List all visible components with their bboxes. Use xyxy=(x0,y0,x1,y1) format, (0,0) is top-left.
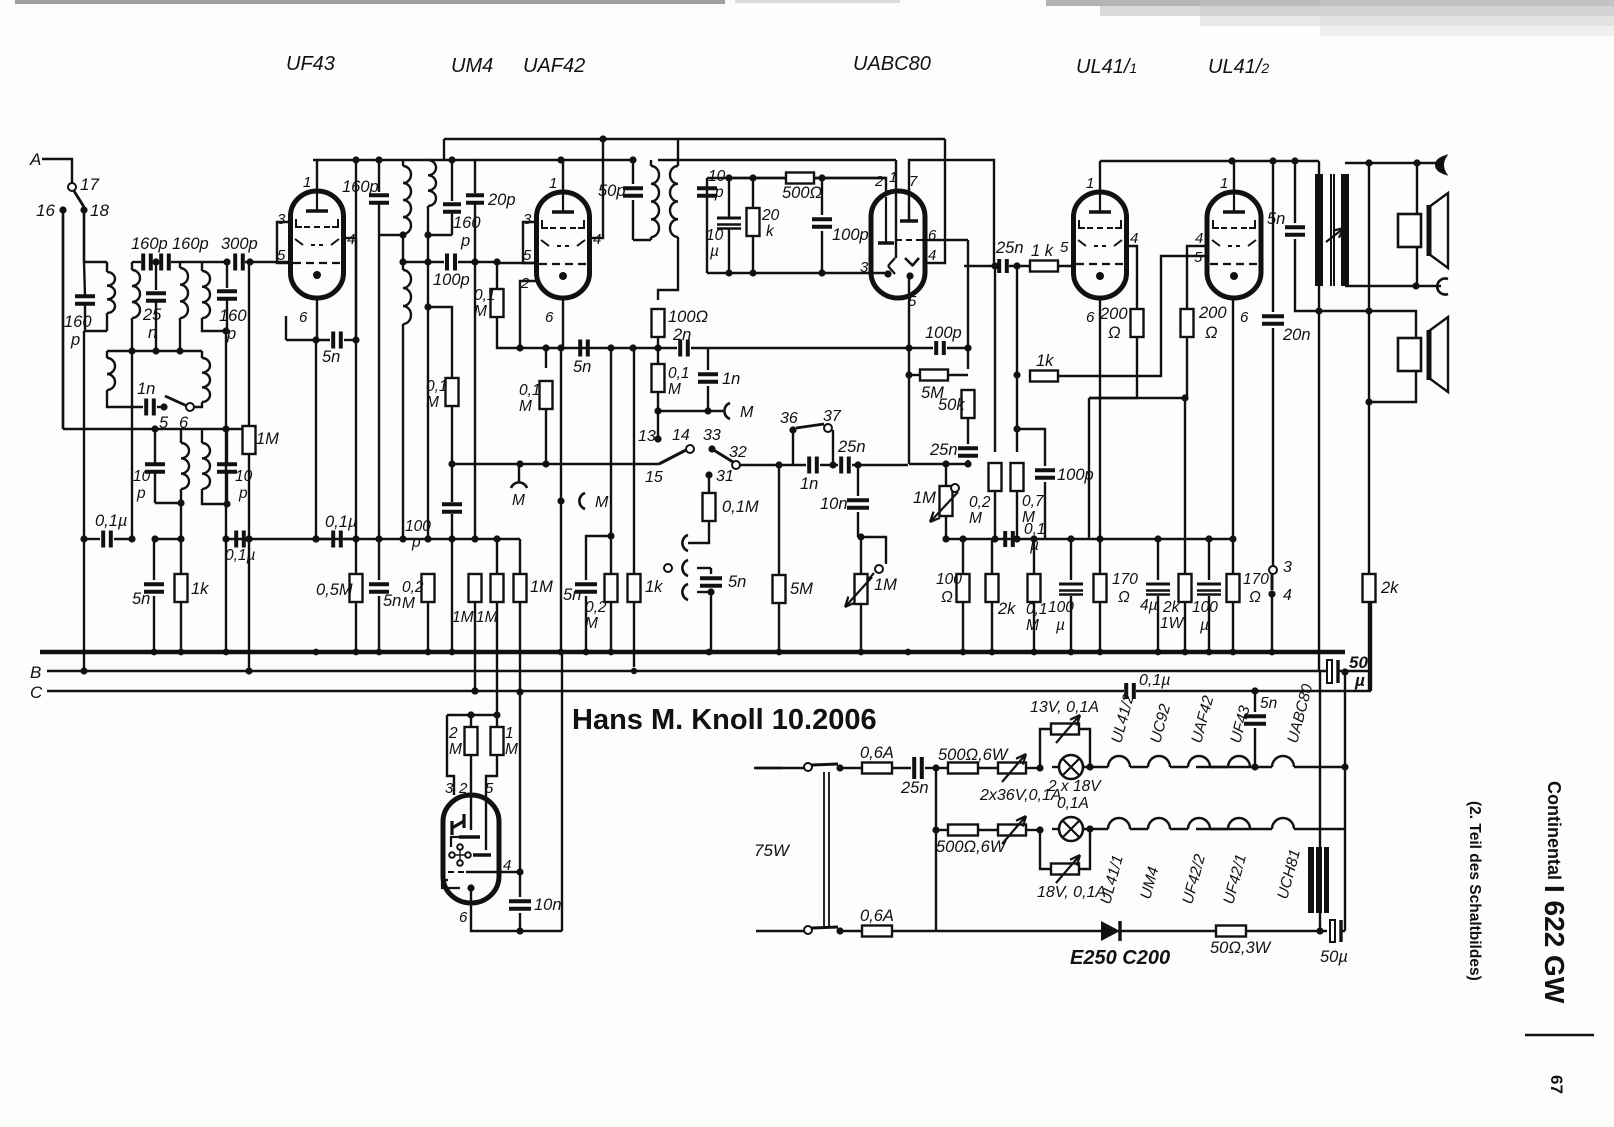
wire tank column xyxy=(131,351,133,538)
svg-text:6: 6 xyxy=(545,309,554,326)
potentiometer 1M tone xyxy=(861,537,886,564)
mains terminal bottom xyxy=(756,930,804,932)
scan noise top right corner xyxy=(1046,0,1614,6)
svg-text:µ: µ xyxy=(710,243,719,260)
svg-text:1: 1 xyxy=(1086,175,1094,192)
resistor 0,1M UAF42 xyxy=(545,348,547,368)
wire pin7 plate xyxy=(909,160,994,266)
wire speaker2 bottom xyxy=(1369,371,1416,402)
svg-text:0,1A: 0,1A xyxy=(1057,795,1089,812)
svg-text:0,7: 0,7 xyxy=(1022,493,1045,510)
ground bus thick xyxy=(40,650,1345,655)
wire feedback xyxy=(1368,163,1370,311)
svg-text:1: 1 xyxy=(549,175,557,192)
resistor 2M xyxy=(470,715,472,727)
switch 36-37 loop xyxy=(792,430,794,465)
svg-text:1M: 1M xyxy=(452,609,474,626)
resistor 170 ohm 2 xyxy=(1232,539,1234,574)
inductor coil 10p right xyxy=(201,429,203,443)
svg-text:0,2: 0,2 xyxy=(402,579,424,596)
svg-text:C: C xyxy=(30,683,43,702)
inductor osc coil secondary xyxy=(402,262,404,270)
capacitor 100p det xyxy=(821,178,823,215)
svg-text:4: 4 xyxy=(347,231,355,248)
svg-text:5: 5 xyxy=(1194,249,1203,266)
svg-text:0,1M: 0,1M xyxy=(722,498,759,516)
wire node16 down xyxy=(62,210,64,429)
svg-text:3: 3 xyxy=(445,780,454,797)
svg-text:M: M xyxy=(740,404,754,421)
svg-text:4: 4 xyxy=(593,231,601,248)
resistor 1M osc xyxy=(248,262,250,426)
contact 6 xyxy=(186,403,194,411)
svg-text:160: 160 xyxy=(453,214,481,232)
fuse 0,6A bottom xyxy=(840,930,863,932)
svg-text:500Ω: 500Ω xyxy=(782,184,822,202)
svg-text:0,1: 0,1 xyxy=(426,378,448,395)
capacitor 160p feedback xyxy=(451,160,453,201)
node 16 xyxy=(59,206,66,213)
svg-text:100p: 100p xyxy=(925,324,962,342)
wire pin5 cathode xyxy=(908,276,910,464)
transformer core xyxy=(1330,174,1332,286)
svg-text:17: 17 xyxy=(80,175,99,194)
svg-text:100p: 100p xyxy=(832,226,869,244)
svg-text:31: 31 xyxy=(716,468,734,485)
capacitor 0,1u 2 xyxy=(312,535,319,542)
hook M right of 0,1M xyxy=(658,410,723,412)
resistor 2k fb xyxy=(1363,574,1376,602)
wire node18 down xyxy=(83,210,85,262)
svg-text:1k: 1k xyxy=(645,578,663,596)
capacitor 25n AF xyxy=(820,464,838,466)
svg-text:0,1: 0,1 xyxy=(474,287,496,304)
svg-text:µ: µ xyxy=(1200,617,1209,634)
filter choke xyxy=(1319,672,1321,931)
hook phono 2 xyxy=(682,584,688,600)
svg-text:Ω: Ω xyxy=(1205,324,1218,342)
svg-text:UABC80: UABC80 xyxy=(853,53,931,75)
svg-text:0,1: 0,1 xyxy=(1024,521,1046,538)
wire top line y139 xyxy=(444,138,945,140)
svg-text:M: M xyxy=(969,510,982,527)
resistor 0,1M osc grid xyxy=(446,378,459,406)
tube UC92 V6 xyxy=(443,795,499,903)
hook phono 1 xyxy=(682,535,688,551)
switch 3-4 tone xyxy=(1269,566,1277,574)
wire xyxy=(1186,337,1188,398)
wire osc grid chain xyxy=(427,235,429,307)
inductor bandswitch coil right xyxy=(201,351,203,358)
capacitor 300p xyxy=(233,254,237,271)
svg-text:5n: 5n xyxy=(132,590,150,608)
svg-text:160p: 160p xyxy=(131,235,168,253)
svg-text:p: p xyxy=(411,534,421,551)
tube UAF42 internals xyxy=(562,194,564,212)
inductor IF2 secondary xyxy=(677,139,679,166)
wire 31 branch xyxy=(705,471,712,478)
svg-text:1M: 1M xyxy=(256,430,279,448)
capacitor 100p osc grid xyxy=(442,502,462,506)
svg-text:Continental: Continental xyxy=(1544,781,1564,880)
svg-text:I 622 GW: I 622 GW xyxy=(1539,885,1570,1004)
svg-text:5: 5 xyxy=(1060,239,1069,256)
wire screen join xyxy=(1089,397,1185,399)
capacitor 0,1u second xyxy=(234,531,238,548)
svg-text:0,6A: 0,6A xyxy=(860,744,894,762)
capacitor 0,1u decouple xyxy=(1003,531,1007,547)
svg-text:13V, 0,1A: 13V, 0,1A xyxy=(1030,699,1099,716)
svg-text:k: k xyxy=(766,223,775,240)
wire y692 to UC92 xyxy=(519,692,521,872)
wire dropper column xyxy=(935,768,937,931)
capacitor 0,1u C line xyxy=(1124,683,1128,699)
resistor 0,1M IF xyxy=(657,348,659,364)
switch blade 5-6 xyxy=(165,396,187,406)
svg-text:1M: 1M xyxy=(874,576,897,594)
wire pin2 detector line xyxy=(707,178,886,192)
wire UL41/1 screen xyxy=(1126,246,1137,309)
node 18 xyxy=(80,206,87,213)
svg-text:B: B xyxy=(30,663,41,682)
svg-text:100: 100 xyxy=(936,571,962,588)
scan noise top edge xyxy=(15,0,725,4)
contact 5 xyxy=(160,403,167,410)
svg-text:18: 18 xyxy=(90,201,109,220)
wire AF y464 continuation xyxy=(546,463,659,465)
resistor 2k 1W xyxy=(1184,539,1186,574)
svg-text:5n: 5n xyxy=(728,573,746,591)
resistor 50 ohm 3W xyxy=(1216,926,1246,937)
svg-text:16: 16 xyxy=(36,201,55,220)
resistor 1M a xyxy=(474,262,476,539)
svg-text:p: p xyxy=(460,232,470,250)
svg-text:(2. Teil des Schaltbildes): (2. Teil des Schaltbildes) xyxy=(1466,801,1483,981)
hook M on AF line xyxy=(518,464,520,482)
svg-text:67: 67 xyxy=(1547,1075,1566,1094)
mains terminal top xyxy=(754,767,782,769)
resistor variable 13V loop xyxy=(1040,729,1052,768)
inductor tank coil right xyxy=(179,262,181,268)
svg-text:0,1µ: 0,1µ xyxy=(225,547,256,564)
wire rail to UABC80 xyxy=(658,159,896,161)
hook secondary xyxy=(1437,279,1448,295)
svg-text:0,1: 0,1 xyxy=(668,365,690,382)
wire pin4 to top line xyxy=(926,139,945,263)
svg-text:6: 6 xyxy=(928,227,937,244)
capacitor 160p tank left xyxy=(132,261,141,263)
svg-text:50p: 50p xyxy=(598,182,626,200)
wire y464 AF line xyxy=(452,463,546,465)
capacitor 50p xyxy=(632,160,634,184)
resistor variable 2x36V 1 xyxy=(978,767,999,769)
svg-text:M: M xyxy=(595,494,609,511)
svg-text:50k: 50k xyxy=(938,396,965,414)
resistor 1M c xyxy=(519,539,521,575)
potentiometer 1M volume xyxy=(945,464,947,486)
svg-text:1k: 1k xyxy=(191,580,209,598)
capacitor 10n UC92 xyxy=(519,872,521,897)
wire speaker2 top xyxy=(1369,311,1416,338)
mains cord double line xyxy=(823,772,825,928)
inductor osc coil 3 xyxy=(428,160,436,206)
wire UAF42 screen xyxy=(590,139,603,238)
fuse 0,6A top xyxy=(840,767,863,769)
svg-text:5n: 5n xyxy=(1260,695,1277,712)
svg-text:25n: 25n xyxy=(995,239,1024,257)
svg-text:6: 6 xyxy=(459,909,468,926)
capacitor 5n heater xyxy=(1254,691,1256,712)
svg-text:100p: 100p xyxy=(433,271,470,289)
svg-text:p: p xyxy=(70,331,80,349)
inductor tank coil left xyxy=(131,262,133,270)
capacitor 5n het xyxy=(586,536,611,580)
svg-text:0,1µ: 0,1µ xyxy=(1139,672,1170,689)
inductor antenna coil xyxy=(84,261,107,263)
svg-text:0,6A: 0,6A xyxy=(860,907,894,925)
switch blade mains 1 xyxy=(812,764,838,765)
svg-text:0,1µ: 0,1µ xyxy=(325,513,357,531)
svg-text:1: 1 xyxy=(1220,175,1228,192)
svg-text:M: M xyxy=(519,398,532,415)
capacitor 0,1u xyxy=(84,538,100,540)
svg-text:0,1: 0,1 xyxy=(519,382,541,399)
svg-text:2: 2 xyxy=(458,780,468,797)
capacitor 10u electrolytic xyxy=(717,217,741,220)
wire secondary top xyxy=(1345,162,1441,164)
tube UF43 internals xyxy=(316,193,318,211)
svg-text:5n: 5n xyxy=(322,348,340,366)
svg-text:Ω: Ω xyxy=(1249,589,1261,606)
tube UL41/2 internals xyxy=(1233,194,1235,212)
svg-text:5M: 5M xyxy=(790,580,813,598)
capacitor 10n xyxy=(857,465,859,496)
wire right column xyxy=(1344,672,1346,931)
svg-text:Ω: Ω xyxy=(941,589,953,606)
phono jack xyxy=(664,564,672,572)
wire after switch xyxy=(740,464,806,466)
svg-text:1n: 1n xyxy=(800,475,818,493)
svg-text:300p: 300p xyxy=(221,235,258,253)
capacitor 1n xyxy=(707,348,709,370)
svg-text:20n: 20n xyxy=(1282,326,1311,344)
resistor 0,2M het xyxy=(610,536,612,574)
transformer secondary xyxy=(1341,174,1349,286)
svg-text:3: 3 xyxy=(523,211,532,228)
capacitor 1n AF xyxy=(807,457,811,474)
resistor 5M agc xyxy=(909,374,920,376)
svg-text:2: 2 xyxy=(448,725,458,742)
tube UL41/2 V5 xyxy=(1207,192,1261,298)
wire speaker1 bottom xyxy=(1416,247,1418,286)
svg-text:100: 100 xyxy=(405,518,431,535)
transformer output primary xyxy=(1318,161,1320,174)
svg-text:4: 4 xyxy=(928,247,936,264)
capacitor 100u 1 xyxy=(1070,539,1072,580)
svg-text:170: 170 xyxy=(1243,571,1269,588)
svg-text:160p: 160p xyxy=(172,235,209,253)
svg-text:2k: 2k xyxy=(1380,579,1399,597)
resistor 170 ohm 1 xyxy=(1099,539,1101,574)
resistor 200 ohm 2 xyxy=(1181,309,1194,337)
svg-text:25n: 25n xyxy=(837,438,866,456)
wire antenna A xyxy=(42,159,72,183)
resistor 200 ohm 1 xyxy=(1131,309,1144,337)
wire cathode down xyxy=(315,340,317,539)
svg-text:M: M xyxy=(449,741,462,758)
resistor 50k xyxy=(962,390,975,418)
resistor 1k UL41 grid xyxy=(1030,261,1058,272)
wire down xyxy=(225,331,227,429)
capacitor 25n agc xyxy=(967,418,969,444)
svg-text:1 k: 1 k xyxy=(1031,242,1054,260)
svg-text:5n: 5n xyxy=(383,592,401,610)
svg-text:100Ω: 100Ω xyxy=(668,308,708,326)
svg-text:6: 6 xyxy=(1240,309,1249,326)
divider line xyxy=(1525,1034,1594,1036)
resistor 0,7M xyxy=(1011,463,1024,491)
svg-text:p: p xyxy=(136,485,146,502)
resistor 0,1M d xyxy=(1033,539,1035,574)
svg-text:3: 3 xyxy=(277,211,286,228)
wire primary bottom xyxy=(1318,286,1320,311)
wire speaker1 top xyxy=(1416,163,1418,214)
wire UAF42 diode pin2 xyxy=(520,281,537,348)
svg-text:5n: 5n xyxy=(563,586,581,604)
wire y539 line xyxy=(226,538,520,540)
svg-text:1M: 1M xyxy=(913,489,936,507)
wire to UL41/2 grid xyxy=(1058,256,1207,376)
wire xyxy=(610,348,612,536)
capacitor 5n UAF42 cathode xyxy=(562,298,564,348)
svg-text:13: 13 xyxy=(638,428,656,445)
wire y464 to pot xyxy=(909,463,968,465)
svg-text:15: 15 xyxy=(645,469,663,486)
wire screen feed xyxy=(355,160,357,340)
svg-text:2n: 2n xyxy=(672,326,691,344)
capacitor 5n UF43 cathode xyxy=(316,298,318,340)
svg-text:1: 1 xyxy=(505,725,514,742)
speaker 1 xyxy=(1398,214,1421,247)
svg-text:500Ω,6W: 500Ω,6W xyxy=(936,838,1007,856)
svg-text:200: 200 xyxy=(1198,304,1227,322)
inductor bandswitch coil left xyxy=(106,351,108,358)
resistor 0,2M osc xyxy=(427,307,429,539)
svg-text:4: 4 xyxy=(1195,230,1203,247)
switch blade mains 2 xyxy=(812,927,838,928)
lamp 18V xyxy=(1059,817,1083,841)
resistor 1M UC92 xyxy=(496,715,498,727)
wire B+ rail y160 xyxy=(313,159,475,161)
svg-text:2: 2 xyxy=(874,173,884,190)
svg-text:E250 C200: E250 C200 xyxy=(1070,947,1170,969)
resistor 1k het xyxy=(633,348,635,574)
capacitor 25n xyxy=(155,262,157,290)
resistor 0,5M xyxy=(350,574,363,602)
resistor 500 ohm 6W 2 xyxy=(948,825,978,836)
wire UC92 cathode xyxy=(471,888,562,931)
capacitor 10p left xyxy=(154,429,156,464)
svg-text:Hans M. Knoll 10.2006: Hans M. Knoll 10.2006 xyxy=(572,704,877,736)
wire grid xyxy=(497,262,537,264)
wire det bottom xyxy=(706,272,708,274)
svg-text:1k: 1k xyxy=(1036,352,1054,370)
svg-text:0,1: 0,1 xyxy=(1026,601,1048,618)
svg-text:UAF42: UAF42 xyxy=(523,55,585,77)
svg-text:10n: 10n xyxy=(820,495,848,513)
capacitor 160p tank right xyxy=(159,254,163,271)
svg-text:160p: 160p xyxy=(342,178,379,196)
svg-text:0,1µ: 0,1µ xyxy=(95,512,127,530)
wire pin1 grid line xyxy=(895,160,897,258)
tube UF43 V1 xyxy=(291,191,344,298)
capacitor 25n coupling xyxy=(964,265,994,267)
svg-text:1W: 1W xyxy=(1160,615,1185,632)
svg-text:µ: µ xyxy=(1354,671,1365,690)
svg-text:5n: 5n xyxy=(1267,210,1285,228)
wire down to bus xyxy=(225,539,227,652)
svg-text:500Ω,6W: 500Ω,6W xyxy=(938,746,1009,764)
svg-text:Ω: Ω xyxy=(1118,589,1130,606)
wire UF43 plate to rail xyxy=(316,160,318,193)
inductor IF2 primary xyxy=(650,160,652,166)
wire xyxy=(443,139,445,159)
svg-text:10: 10 xyxy=(133,468,151,485)
wire xyxy=(1088,398,1090,539)
tube UL41/1 internals xyxy=(1099,194,1101,212)
capacitor 160p antenna xyxy=(83,210,85,262)
svg-text:M: M xyxy=(1026,617,1039,634)
capacitor 2n xyxy=(520,347,677,349)
inductor antenna coil 2 xyxy=(201,262,203,271)
capacitor 100p osc coupling xyxy=(403,261,444,263)
svg-text:100: 100 xyxy=(1192,599,1218,616)
svg-text:50Ω,3W: 50Ω,3W xyxy=(1210,939,1272,957)
speaker terminal curl xyxy=(1436,156,1446,174)
svg-text:µ: µ xyxy=(1056,617,1065,634)
resistor variable 18V loop xyxy=(1040,830,1052,869)
capacitor 10p det xyxy=(697,186,717,190)
svg-text:2: 2 xyxy=(520,275,530,292)
svg-text:UF43: UF43 xyxy=(286,53,335,75)
wire xyxy=(728,178,730,218)
svg-text:7: 7 xyxy=(909,173,918,190)
wire UF43 grid bracket xyxy=(277,222,292,263)
svg-text:37: 37 xyxy=(823,408,842,425)
svg-text:5: 5 xyxy=(523,247,532,264)
capacitor 160p osc tank xyxy=(378,160,380,192)
svg-text:33: 33 xyxy=(703,427,721,444)
capacitor 5n screen xyxy=(378,539,380,580)
inductor osc coil primary xyxy=(402,160,404,166)
capacitor 20p xyxy=(474,160,476,193)
resistor 100 ohm 2 xyxy=(962,539,964,574)
contact 17 xyxy=(68,183,76,191)
wire UC92 pin4 xyxy=(466,871,520,873)
wire xyxy=(378,235,380,540)
resistor 2k xyxy=(991,539,993,574)
svg-text:3: 3 xyxy=(1283,559,1292,576)
wire 10p column xyxy=(706,178,708,273)
svg-text:50: 50 xyxy=(1349,653,1368,672)
capacitor 5n phono xyxy=(697,567,711,569)
resistor 1k phase xyxy=(1016,266,1018,375)
svg-text:5n: 5n xyxy=(573,358,591,376)
wire pin6 column xyxy=(922,239,968,241)
wire UL41/2 screen xyxy=(1187,246,1207,309)
svg-text:M: M xyxy=(668,381,681,398)
lamp 13V xyxy=(1059,755,1083,779)
